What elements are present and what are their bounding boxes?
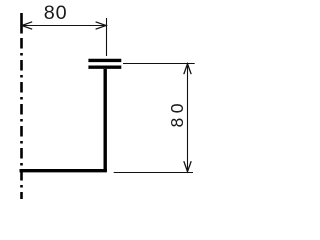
dimension line 80 vertical bbox=[187, 64, 189, 172]
svg-text:80: 80 bbox=[44, 2, 68, 24]
object line vertical bbox=[103, 69, 106, 171]
extension line bottom of vertical dimension bbox=[114, 172, 193, 174]
svg-text:80: 80 bbox=[167, 99, 187, 127]
arrow right bbox=[96, 22, 106, 29]
extension line top of vertical dimension bbox=[123, 63, 195, 65]
dimension line 80 horizontal bbox=[22, 25, 107, 27]
arrow left bbox=[22, 22, 32, 29]
arrow down bbox=[184, 161, 191, 171]
arrow up bbox=[184, 64, 191, 74]
flange top bar bbox=[88, 59, 121, 62]
centerline bbox=[20, 13, 23, 199]
flange bottom bar bbox=[88, 65, 121, 68]
object line bottom horizontal bbox=[20, 169, 107, 172]
extension line right of top dimension bbox=[106, 18, 108, 56]
